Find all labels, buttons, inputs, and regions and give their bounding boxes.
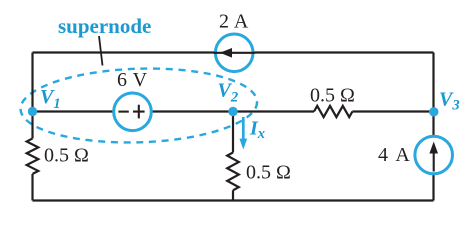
node V2 dot — [228, 107, 237, 116]
wire through 2A source — [214, 52, 256, 54]
node V1 dot — [28, 107, 37, 116]
svg-text:2 A: 2 A — [219, 11, 249, 33]
current source I2 4A circle — [415, 136, 453, 174]
svg-text:0.5 Ω: 0.5 Ω — [44, 145, 89, 167]
wire V1 to source — [33, 110, 116, 112]
arrowhead 2A pointing left — [220, 48, 232, 58]
wire bottom — [33, 199, 434, 201]
wire left rail upper — [31, 53, 33, 139]
wire V2 down — [232, 112, 234, 153]
svg-text:0.5 Ω: 0.5 Ω — [310, 85, 355, 107]
wire through 4A source — [433, 146, 435, 172]
current source I1 2A circle — [215, 34, 253, 72]
svg-text:6 V: 6 V — [117, 69, 148, 91]
wire top — [33, 51, 434, 53]
supernode ellipse (dashed) — [19, 65, 258, 146]
wire R2 to bottom — [232, 190, 234, 200]
wire left rail lower — [31, 174, 33, 201]
svg-text:0.5 Ω: 0.5 Ω — [246, 162, 291, 184]
pointer line supernode — [99, 36, 103, 66]
minus sign of 6V source — [118, 111, 128, 113]
svg-text:supernode: supernode — [58, 14, 151, 38]
node V3 dot — [429, 107, 438, 116]
wire resistor R3 to V3 — [352, 110, 433, 112]
wire source to resistor R3 — [150, 110, 314, 112]
voltage source U1 6V circle — [114, 93, 152, 131]
resistor R1 0.5ohm left — [27, 139, 39, 174]
wire right rail — [432, 53, 434, 201]
plus sign of 6V source — [133, 105, 145, 119]
resistor R3 0.5ohm horizontal — [314, 106, 352, 117]
resistor R2 0.5ohm middle — [227, 153, 239, 191]
arrowhead 4A pointing up — [429, 142, 438, 154]
Ix current arrow — [242, 117, 245, 141]
